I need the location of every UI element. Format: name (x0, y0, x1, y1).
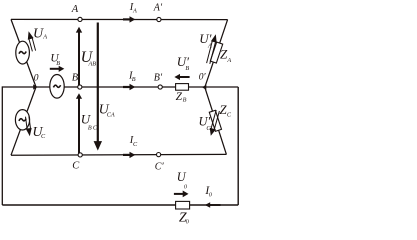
svg-text:A: A (42, 33, 47, 40)
svg-text:B: B (183, 96, 187, 103)
svg-text:A: A (132, 8, 137, 15)
svg-text:A: A (226, 57, 231, 64)
svg-text:0: 0 (34, 74, 39, 84)
svg-text:0′: 0′ (199, 73, 207, 83)
svg-text:A: A (71, 4, 79, 15)
svg-text:AB: AB (88, 60, 97, 67)
svg-text:C′: C′ (155, 162, 165, 173)
svg-text:A′: A′ (153, 3, 163, 14)
svg-text:B C: B C (88, 125, 98, 132)
svg-text:B: B (56, 60, 60, 67)
svg-text:C: C (72, 160, 80, 171)
svg-text:B′: B′ (154, 72, 163, 83)
svg-text:CA: CA (107, 111, 115, 118)
svg-text:A: A (207, 43, 212, 50)
svg-text:B: B (185, 65, 189, 72)
svg-text:B: B (132, 76, 136, 83)
svg-text:U: U (177, 170, 187, 184)
svg-text:B: B (72, 72, 79, 83)
svg-text:Z: Z (176, 91, 183, 103)
